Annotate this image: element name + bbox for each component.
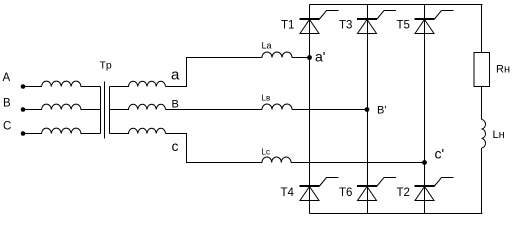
svg-text:T6: T6 <box>339 187 352 199</box>
transformer primary winding phase B <box>23 104 101 109</box>
transformer secondary winding B <box>110 99 179 111</box>
svg-text:T1: T1 <box>281 20 294 32</box>
wire primary star bus <box>100 87 102 134</box>
inductor Ln <box>482 120 505 149</box>
svg-text:c': c' <box>435 146 445 162</box>
wire La to node a' <box>292 57 310 59</box>
terminal B <box>3 98 25 112</box>
inductor Lv <box>262 94 293 110</box>
svg-text:T4: T4 <box>281 187 295 199</box>
transformer secondary winding c <box>110 128 179 154</box>
wire Lc to node c' <box>291 162 425 164</box>
svg-text:La: La <box>262 41 272 51</box>
wire winding a to La <box>166 58 263 87</box>
svg-text:Lн: Lн <box>493 129 505 141</box>
node a' <box>307 49 325 65</box>
wire bridge leg 3 <box>424 5 426 214</box>
thyristor T2 <box>397 178 454 201</box>
terminal C <box>3 121 25 136</box>
thyristor T3 <box>339 11 396 34</box>
wire winding B to Lv <box>166 109 263 111</box>
node B' <box>365 105 387 117</box>
transformer primary winding phase A <box>23 81 101 86</box>
svg-text:a': a' <box>315 49 325 65</box>
inductor Lc <box>262 148 292 163</box>
wire Lv to node B' <box>292 109 367 111</box>
svg-text:a: a <box>171 67 180 84</box>
wire bridge leg 1 <box>309 5 311 214</box>
wire secondary star bus <box>109 87 111 134</box>
svg-text:c: c <box>172 138 179 154</box>
svg-text:A: A <box>3 72 11 84</box>
svg-text:B: B <box>172 99 179 111</box>
terminal A <box>3 72 26 89</box>
thyristor T1 <box>281 11 339 34</box>
wire negative bus <box>310 213 483 215</box>
svg-text:B': B' <box>377 105 386 117</box>
thyristor T5 <box>397 11 454 34</box>
svg-text:T3: T3 <box>339 20 352 32</box>
thyristor T6 <box>339 178 396 201</box>
transformer core <box>104 82 106 139</box>
resistor Rn <box>474 53 510 87</box>
svg-text:C: C <box>3 121 11 133</box>
transformer Tp label <box>100 60 112 72</box>
inductor La <box>262 41 293 58</box>
thyristor T4 <box>281 178 339 201</box>
wire load branch <box>481 5 483 214</box>
wire bridge leg 2 <box>367 5 369 214</box>
wire positive bus <box>310 4 483 6</box>
transformer secondary winding a <box>110 67 181 87</box>
transformer primary winding phase C <box>23 128 101 133</box>
svg-text:B: B <box>3 98 11 110</box>
svg-text:Lc: Lc <box>262 148 270 157</box>
svg-text:Lв: Lв <box>262 94 271 103</box>
svg-text:T5: T5 <box>397 20 410 32</box>
svg-text:Tp: Tp <box>100 60 112 72</box>
node c' <box>422 146 444 165</box>
svg-text:Rн: Rн <box>496 64 510 76</box>
svg-text:T2: T2 <box>397 187 410 199</box>
wire winding c to Lc <box>166 134 263 163</box>
